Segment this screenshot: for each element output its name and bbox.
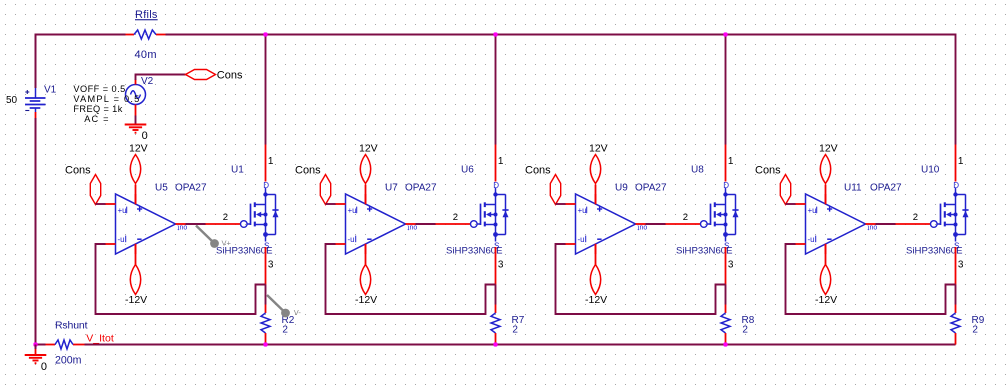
svg-text:2: 2 <box>453 212 458 223</box>
mosfet U6 SiHP33N60E <box>436 181 509 250</box>
resistor Rfils 40m in top rail <box>126 9 166 61</box>
svg-text:2: 2 <box>223 212 228 223</box>
mosfet U8 SiHP33N60E <box>666 181 739 250</box>
svg-text:-12V: -12V <box>585 294 607 306</box>
ground 0 (bottom left) <box>25 355 47 363</box>
svg-text:Cons: Cons <box>65 164 91 176</box>
svg-text:U11: U11 <box>844 183 862 194</box>
label U8 <box>691 165 704 176</box>
op-amp U7 pin names <box>348 206 418 244</box>
off-page connector Cons (U5 input) <box>90 175 100 205</box>
power symbol -12V (U11) <box>820 244 830 295</box>
svg-text:3: 3 <box>268 260 274 271</box>
pin number 1 (U6 drain) <box>498 156 504 167</box>
value 2 (R2) <box>282 324 288 335</box>
power symbol 12V (U9) <box>590 155 600 205</box>
svg-text:+u: +u <box>808 206 817 215</box>
label U5 <box>155 183 168 194</box>
value OPA27 (U7) <box>405 183 437 194</box>
V2 parameter text <box>73 84 140 124</box>
svg-text:0: 0 <box>41 361 47 373</box>
value SiHP33N60E (U10) <box>906 245 963 256</box>
svg-text:-12V: -12V <box>125 294 147 306</box>
svg-text:D: D <box>493 181 499 190</box>
svg-text:2: 2 <box>512 324 518 335</box>
svg-text:1: 1 <box>268 156 274 167</box>
svg-text:OPA27: OPA27 <box>405 183 437 194</box>
svg-text:2: 2 <box>683 212 688 223</box>
svg-text:-12V: -12V <box>815 294 837 306</box>
value OPA27 (U5) <box>175 183 207 194</box>
resistor R7 2 <box>491 285 500 345</box>
wire Cons to +input of U7 <box>326 203 336 205</box>
pin number 3 (U8 source) <box>728 260 734 271</box>
wire V2 to ground <box>135 116 137 125</box>
label R7 <box>512 315 525 326</box>
svg-text:V1: V1 <box>44 85 57 96</box>
svg-text:VAMPL = 0.5: VAMPL = 0.5 <box>73 94 140 104</box>
off-page connector Cons (U9 input) <box>550 175 560 205</box>
svg-text:SiHP33N60E: SiHP33N60E <box>446 245 503 256</box>
label -12V (U11) <box>815 294 837 306</box>
op-amp U9 OPA27 <box>566 194 646 254</box>
value OPA27 (U11) <box>870 183 902 194</box>
svg-text:12V: 12V <box>819 142 838 154</box>
label Cons (top) <box>217 70 243 82</box>
label 12V (U11) <box>819 142 838 154</box>
op-amp U5 pin names <box>118 206 188 244</box>
value 50 <box>6 95 18 106</box>
svg-text:+u: +u <box>578 206 587 215</box>
resistor Rshunt 200m <box>46 320 88 367</box>
ground 0 under V2 <box>125 125 147 133</box>
power symbol 12V (U7) <box>360 155 370 205</box>
top power rail wire <box>36 34 956 36</box>
label -12V (U5) <box>125 294 147 306</box>
sine source V2 <box>126 79 146 116</box>
op-amp U7 OPA27 <box>336 194 416 254</box>
label Cons (U5 input) <box>65 164 91 176</box>
svg-text:D: D <box>723 181 729 190</box>
resistor R2 2 <box>261 285 270 345</box>
pin number 2 (U1 gate) <box>223 212 228 223</box>
power symbol -12V (U9) <box>590 244 600 295</box>
label 12V (U7) <box>359 142 378 154</box>
svg-text:12V: 12V <box>359 142 378 154</box>
pin number 1 (U8 drain) <box>728 156 734 167</box>
junction bottom rail at R2 <box>263 342 267 346</box>
feedback wire (U11) <box>786 244 956 314</box>
power symbol -12V (U7) <box>360 244 370 295</box>
resistor R9 2 <box>951 285 960 345</box>
wire drain of U8 to top rail <box>725 34 727 182</box>
svg-text:Cons: Cons <box>525 164 551 176</box>
svg-text:U9: U9 <box>615 183 628 194</box>
power symbol 12V (U5) <box>130 155 140 205</box>
svg-text:OPA27: OPA27 <box>175 183 207 194</box>
svg-text:-u: -u <box>118 235 125 244</box>
wire drain of U6 to top rail <box>495 34 497 182</box>
op-amp U5 OPA27 <box>106 194 186 254</box>
label Cons (U7 input) <box>295 164 321 176</box>
value SiHP33N60E (U8) <box>676 245 733 256</box>
svg-text:2: 2 <box>913 212 918 223</box>
value 2 (R7) <box>512 324 518 335</box>
wire Cons to +input of U11 <box>786 203 796 205</box>
svg-text:U5: U5 <box>155 183 168 194</box>
svg-text:V-: V- <box>294 308 302 317</box>
resistor R8 2 <box>721 285 730 345</box>
wire U9 output to gate of U8 <box>646 223 666 225</box>
svg-text:SiHP33N60E: SiHP33N60E <box>676 245 733 256</box>
value SiHP33N60E (U1) <box>216 245 273 256</box>
svg-text:2: 2 <box>972 324 978 335</box>
svg-text:1: 1 <box>498 156 504 167</box>
pin number 3 (U10 source) <box>958 260 964 271</box>
pin number 3 (U1 source) <box>268 260 274 271</box>
label V2 <box>141 76 154 87</box>
value OPA27 (U9) <box>635 183 667 194</box>
label R2 <box>282 315 295 326</box>
wire Cons to +input of U9 <box>556 203 566 205</box>
svg-text:-u: -u <box>808 235 815 244</box>
svg-text:SiHP33N60E: SiHP33N60E <box>906 245 963 256</box>
mosfet U10 SiHP33N60E <box>896 181 969 250</box>
svg-text:Cons: Cons <box>295 164 321 176</box>
wire source of U8 down <box>725 247 727 285</box>
svg-text:OPA27: OPA27 <box>870 183 902 194</box>
wire U11 output to gate of U10 <box>876 223 896 225</box>
svg-text:V_Itot: V_Itot <box>86 333 114 345</box>
net alias V_Itot <box>86 333 114 345</box>
off-page connector Cons (top) <box>186 70 216 80</box>
junction bottom rail at R7 <box>493 342 497 346</box>
wire drain of U10 to top rail <box>955 34 957 182</box>
svg-text:U1: U1 <box>231 165 244 176</box>
value SiHP33N60E (U6) <box>446 245 503 256</box>
label 12V (U9) <box>589 142 608 154</box>
svg-text:40m: 40m <box>135 49 157 61</box>
power symbol 12V (U11) <box>820 155 830 205</box>
wire source of U10 down <box>955 247 957 285</box>
value 2 (R8) <box>742 324 748 335</box>
label R8 <box>742 315 755 326</box>
label U9 <box>615 183 628 194</box>
svg-text:U10: U10 <box>921 165 940 176</box>
svg-text:3: 3 <box>728 260 734 271</box>
junction top rail at U8 drain <box>723 32 727 36</box>
junction top rail at U6 drain <box>493 32 497 36</box>
op-amp U9 pin names <box>578 206 648 244</box>
pin number 1 (U1 drain) <box>268 156 274 167</box>
svg-text:Cons: Cons <box>217 70 243 82</box>
svg-text:2: 2 <box>742 324 748 335</box>
mosfet U1 SiHP33N60E <box>206 181 279 250</box>
svg-text:U7: U7 <box>385 183 398 194</box>
label U7 <box>385 183 398 194</box>
svg-text:Rfils: Rfils <box>135 9 158 21</box>
voltage marker V+ <box>196 226 232 248</box>
pin number 2 (U8 gate) <box>683 212 688 223</box>
svg-text:3: 3 <box>498 260 504 271</box>
feedback wire (U7) <box>326 244 496 314</box>
feedback wire (U5) <box>96 244 266 314</box>
svg-text:OPA27: OPA27 <box>635 183 667 194</box>
bottom rail wire <box>36 344 956 346</box>
label Cons (U11 input) <box>755 164 781 176</box>
svg-text:U6: U6 <box>461 165 474 176</box>
junction top rail at U1 drain <box>263 32 267 36</box>
svg-text:AC =: AC = <box>84 114 109 124</box>
off-page connector Cons (U7 input) <box>320 175 330 205</box>
pin number 2 (U6 gate) <box>453 212 458 223</box>
label -12V (U9) <box>585 294 607 306</box>
svg-text:2: 2 <box>282 324 288 335</box>
label 0 (V2 ground) <box>142 130 148 142</box>
svg-text:V+: V+ <box>222 238 232 247</box>
svg-text:-12V: -12V <box>355 294 377 306</box>
label 12V (U5) <box>129 142 148 154</box>
svg-text:-u: -u <box>348 235 355 244</box>
wire source of U1 down <box>265 247 267 285</box>
wire drain of U1 to top rail <box>265 34 267 182</box>
svg-text:50: 50 <box>6 95 18 106</box>
label Cons (U9 input) <box>525 164 551 176</box>
wire U7 output to gate of U6 <box>416 223 436 225</box>
label U11 <box>844 183 862 194</box>
label -12V (U7) <box>355 294 377 306</box>
voltage marker V- <box>267 295 301 317</box>
pin number 1 (U10 drain) <box>958 156 964 167</box>
junction bottom rail at R8 <box>723 342 727 346</box>
svg-text:12V: 12V <box>129 142 148 154</box>
op-amp U11 OPA27 <box>796 194 876 254</box>
wire source of U6 down <box>495 247 497 285</box>
svg-text:12V: 12V <box>589 142 608 154</box>
svg-text:+u: +u <box>348 206 357 215</box>
svg-text:3: 3 <box>958 260 964 271</box>
op-amp U11 pin names <box>808 206 878 244</box>
svg-text:1: 1 <box>728 156 734 167</box>
wire V2 to Cons connector <box>136 75 186 81</box>
junction bottom-left node <box>33 342 37 346</box>
power symbol -12V (U5) <box>130 244 140 295</box>
svg-text:U8: U8 <box>691 165 704 176</box>
voltage source V1 50V (battery) <box>25 88 46 118</box>
svg-text:VOFF = 0.5: VOFF = 0.5 <box>73 84 125 94</box>
label R9 <box>972 315 985 326</box>
pin number 2 (U10 gate) <box>913 212 918 223</box>
label U10 <box>921 165 940 176</box>
svg-text:V2: V2 <box>141 76 154 87</box>
svg-text:200m: 200m <box>55 354 82 366</box>
svg-text:D: D <box>263 181 269 190</box>
label U6 <box>461 165 474 176</box>
wire left column (V1 branch) <box>35 34 37 346</box>
svg-text:-u: -u <box>578 235 585 244</box>
label 0 (bottom ground) <box>41 361 47 373</box>
svg-text:+u: +u <box>118 206 127 215</box>
svg-text:FREQ = 1k: FREQ = 1k <box>73 104 122 114</box>
value 2 (R9) <box>972 324 978 335</box>
feedback wire (U9) <box>556 244 726 314</box>
svg-text:D: D <box>953 181 959 190</box>
svg-text:1: 1 <box>958 156 964 167</box>
off-page connector Cons (U11 input) <box>780 175 790 205</box>
svg-text:Cons: Cons <box>755 164 781 176</box>
svg-text:Rshunt: Rshunt <box>55 320 88 332</box>
label U1 <box>231 165 244 176</box>
wire U5 output to gate of U1 <box>186 223 206 225</box>
svg-text:0: 0 <box>142 130 148 142</box>
pin number 3 (U6 source) <box>498 260 504 271</box>
wire Cons to +input of U5 <box>96 203 106 205</box>
label V1 <box>44 85 57 96</box>
wire to ground (bottom left) <box>35 345 37 356</box>
